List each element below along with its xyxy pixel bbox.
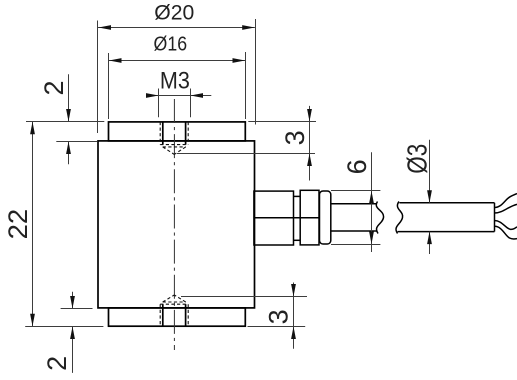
dimension 2 bottom: dimension line segments [72,292,74,309]
cable segment 1 top edge [331,203,376,205]
dimension 3 top (M3 depth): extension lines [248,121,316,123]
bottom cap (loading button) [109,308,246,326]
svg-text:Ø20: Ø20 [154,0,194,24]
load cell main body [98,141,255,308]
svg-text:2: 2 [42,356,72,371]
wire 2 [495,204,517,213]
dimension 3 bottom: dimension line [293,283,295,349]
connector neck top edge [294,195,301,197]
dimension Ø16: arrowheads [109,58,122,63]
dimension Ø20: extension lines [97,21,99,134]
vertical centerline [173,99,175,350]
wire 4 [495,226,517,239]
cable break squiggle 2 [396,202,403,234]
cable segment 2 bottom edge [398,231,495,233]
dimension 3 bottom: arrowheads [291,284,296,297]
cable segment 1 bottom edge [331,230,377,232]
svg-text:22: 22 [3,209,33,240]
dimension M3: extension lines [158,89,160,118]
svg-text:3: 3 [263,309,293,324]
dimension M3: arrowheads (outside, pointing inward) [146,93,159,98]
connector neck bottom edge [294,239,301,241]
connector gland base block [254,191,294,245]
wire 1 [495,194,517,208]
dimension 6 (connector diameter): extension lines [331,190,380,192]
dimension 2 top: extension lines [26,121,104,123]
dimension 2 top: dimension line segments [68,74,70,121]
svg-text:Ø3: Ø3 [402,144,433,174]
svg-text:Ø16: Ø16 [154,32,188,55]
dimension 3 bottom (M3 depth): extension lines [181,296,307,298]
wire 3 [495,221,517,230]
M3 bottom hole: hidden thread crest lines [160,302,188,326]
dimension M3: dimension line [147,95,212,97]
dimension 3 top: dimension line [309,106,311,181]
dimension 2 top: arrowheads [66,109,71,122]
svg-text:6: 6 [342,159,372,174]
cable segment 2 top edge [400,202,495,204]
dimension 2 bottom: arrowheads [70,296,75,309]
dimension 22: dimension line [32,122,34,327]
M3 top hole: hidden thread crest lines [160,122,188,147]
svg-text:3: 3 [280,130,310,145]
dimension Ø3: arrowheads [427,190,432,203]
dimension Ø3 (cable diameter): dimension line segments [429,140,431,203]
dimension Ø16: extension lines [108,53,110,119]
M3 bottom hole: drill point cone [163,295,186,302]
M3 top hole: drill point cone [163,147,186,155]
dimension Ø20: arrowheads [99,25,112,30]
dimension 2 bottom: extension line [61,308,93,310]
connector rounded cap [320,191,331,244]
connector nut block [300,190,319,245]
M3 bottom hole: minor diameter solid lines [163,304,186,326]
dimension 6: dimension line [371,152,373,252]
svg-text:2: 2 [39,80,69,95]
M3 top hole: minor diameter solid lines [163,122,186,145]
cable break squiggle 1 [376,202,383,234]
cable segment 2 end edge [494,203,496,232]
dimension Ø20: dimension line [98,27,255,29]
dimension 22: bottom extension line (shared with bottom 2) [25,326,103,328]
svg-text:M3: M3 [160,68,190,95]
dimension Ø16: dimension line [109,60,246,62]
top cap (loading button) [109,122,246,141]
dimension 22: arrowheads [30,122,35,135]
dimension 6: arrowheads (inside) [369,191,374,204]
dimension 3 top: arrowheads [307,109,312,122]
connector gland base mid edge [254,217,319,219]
